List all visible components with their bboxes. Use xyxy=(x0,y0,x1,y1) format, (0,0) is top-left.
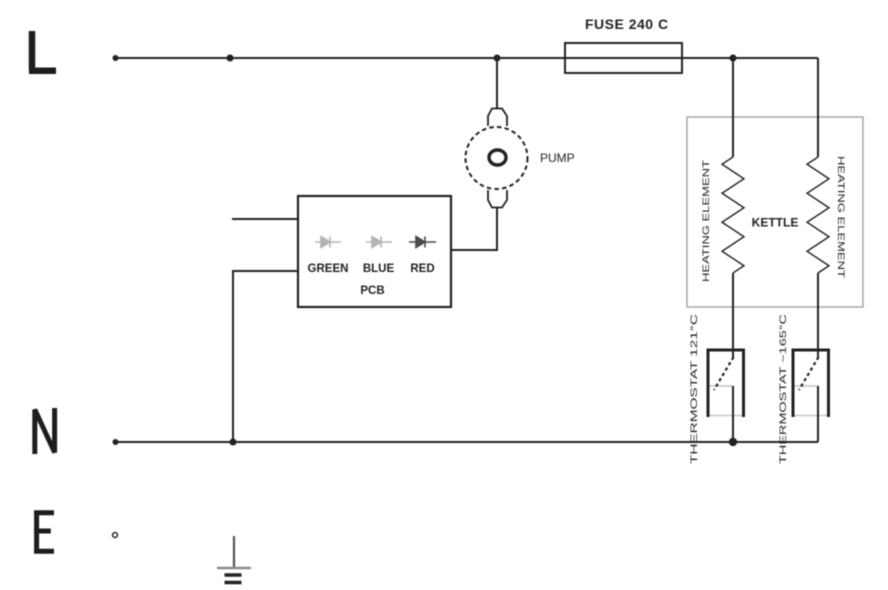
node N label xyxy=(35,408,55,454)
wire pump branch from L xyxy=(496,58,498,108)
node junction dot on N at PCB branch xyxy=(230,439,237,446)
resistor heating element 1 xyxy=(722,157,744,273)
svg-text:HEATING ELEMENT: HEATING ELEMENT xyxy=(701,160,712,282)
wire PCB lower-left stub to N xyxy=(233,271,298,442)
pump M1 top terminal xyxy=(488,109,507,127)
wire N line xyxy=(115,441,818,443)
wire PCB upper-left stub xyxy=(232,218,298,220)
LED red symbol xyxy=(409,237,436,248)
svg-text:PUMP: PUMP xyxy=(540,151,575,165)
pump M1 bottom terminal xyxy=(488,190,507,208)
thermostat 1 switch blade xyxy=(714,357,734,390)
node junction dot on L at pump branch xyxy=(494,55,501,62)
fuse F1 body xyxy=(565,43,682,73)
LED blue symbol xyxy=(366,237,392,248)
wire thermostat 1 to N xyxy=(732,386,734,442)
thermostat 2 switch blade xyxy=(799,357,819,390)
LED green symbol xyxy=(315,237,341,248)
node L start dot xyxy=(113,55,119,61)
PCB U1 box xyxy=(298,196,451,307)
svg-text:GREEN: GREEN xyxy=(308,263,349,275)
wire thermostat 2 to N xyxy=(817,386,819,442)
thermostat 1 bracket xyxy=(708,350,744,417)
wire L to heating element 2 xyxy=(817,58,819,157)
resistor heating element 2 xyxy=(807,157,829,273)
wire heating element 1 to thermostat 1 xyxy=(732,273,734,359)
node E label xyxy=(34,511,54,554)
wire L line xyxy=(115,57,818,59)
wire heating element 2 to thermostat 2 xyxy=(817,273,819,359)
thermostat 2 bracket xyxy=(793,350,829,417)
kettle enclosure box xyxy=(687,117,863,307)
pump M1 rotor mark xyxy=(489,150,506,165)
node junction dot on L at x=230 xyxy=(227,55,234,62)
thermostat 1 housing (light) xyxy=(708,386,744,416)
svg-text:FUSE 240 C: FUSE 240 C xyxy=(585,16,669,32)
node junction dot on L at heater 1 branch xyxy=(730,55,737,62)
node E terminal dot xyxy=(113,533,118,538)
svg-text:BLUE: BLUE xyxy=(363,263,395,275)
thermostat 2 housing (light) xyxy=(793,386,829,416)
node junction dot on N at thermostat 1 xyxy=(729,438,737,446)
wire pump to PCB RED output xyxy=(451,208,497,251)
svg-text:KETTLE: KETTLE xyxy=(752,216,799,230)
wire L to heating element 1 xyxy=(732,58,734,157)
pump M1 body (dashed circle) xyxy=(466,127,528,189)
ground symbol xyxy=(217,536,251,583)
svg-text:PCB: PCB xyxy=(360,285,384,297)
node N start dot xyxy=(113,439,119,445)
node L label xyxy=(29,31,56,71)
svg-text:RED: RED xyxy=(410,263,434,275)
svg-text:HEATING ELEMENT: HEATING ELEMENT xyxy=(835,156,846,278)
